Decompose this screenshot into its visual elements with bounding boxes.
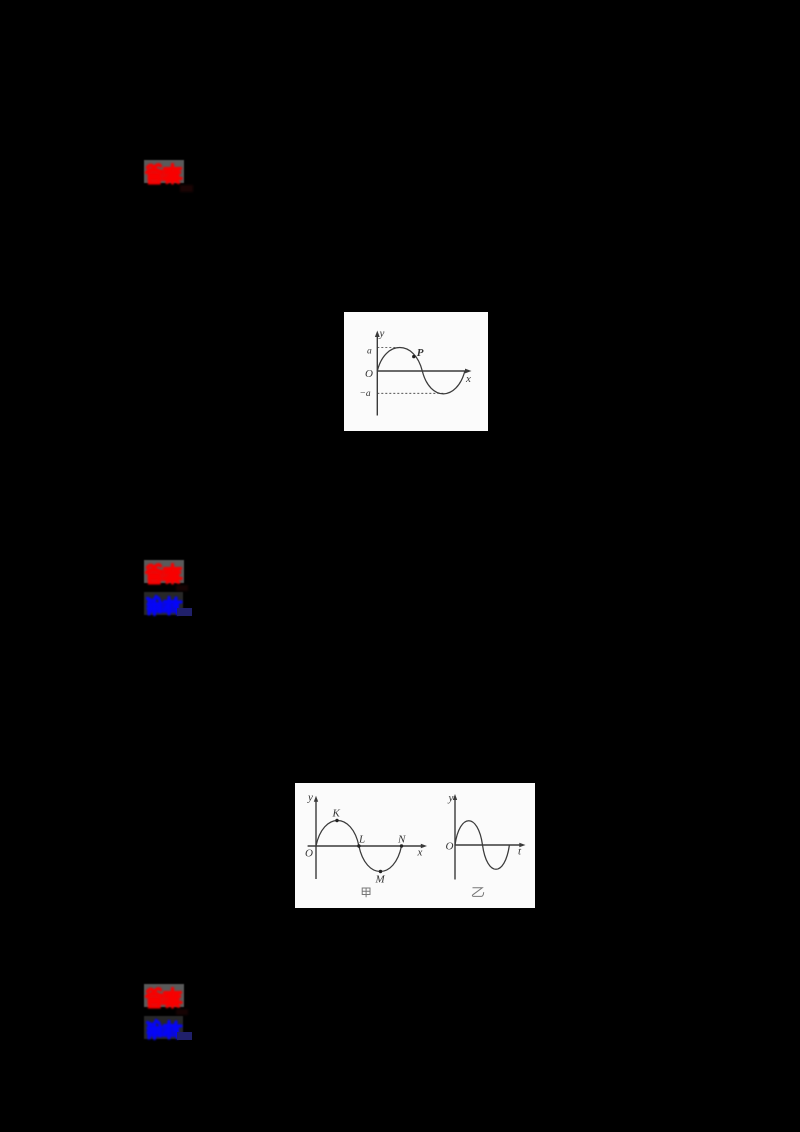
glyph 甲	[362, 888, 370, 897]
svg-text:y: y	[379, 328, 385, 340]
navy highlight box 2	[177, 608, 192, 616]
svg-text:y: y	[307, 792, 313, 804]
figure 2: two sine graphs 甲 and 乙	[295, 783, 535, 908]
svg-text:L: L	[358, 834, 365, 846]
left graph x axis	[308, 845, 424, 847]
answer label 3 (red 答案 on gray box)	[144, 984, 184, 1007]
svg-text:N: N	[397, 834, 406, 846]
right x arrowhead	[519, 843, 525, 848]
left x arrowhead	[421, 844, 427, 849]
y axis arrowhead	[375, 331, 380, 338]
right graph x axis	[455, 844, 522, 846]
svg-text:t: t	[518, 846, 522, 858]
svg-text:O: O	[365, 368, 373, 380]
sine curve	[377, 348, 465, 394]
right y arrowhead	[453, 794, 457, 800]
point N dot	[400, 844, 403, 847]
answer label 1 (red 答案 on gray box)	[144, 160, 184, 183]
dashed line to peak (a)	[377, 347, 400, 349]
figure 1: sine wave y(x) with point P	[344, 312, 488, 431]
point P dot	[412, 355, 415, 358]
analysis label 2 (blue 解析 on dark box)	[144, 592, 183, 615]
point K dot	[335, 819, 338, 822]
analysis label 3 (blue 解析 on dark box)	[144, 1016, 183, 1039]
left y arrowhead	[314, 796, 318, 802]
navy highlight box 3	[177, 1032, 192, 1040]
dashed line to trough (-a)	[377, 392, 444, 394]
svg-text:P: P	[417, 347, 424, 359]
right graph y axis	[454, 799, 456, 880]
svg-text:x: x	[417, 847, 423, 859]
x axis	[377, 370, 468, 372]
faint red smudge under answer label 1	[180, 185, 193, 192]
left sine curve K L M N	[316, 821, 402, 872]
svg-text:M: M	[375, 874, 386, 886]
answer label 2 (red 答案 on gray box)	[144, 560, 184, 583]
point L dot	[357, 844, 360, 847]
svg-text:a: a	[367, 347, 372, 357]
right sine curve	[455, 821, 509, 870]
faint red smudge under answer label 3	[176, 1009, 188, 1015]
y axis	[376, 335, 378, 416]
faint red smudge under answer label 2	[176, 585, 188, 591]
svg-text:K: K	[332, 808, 341, 820]
svg-text:O: O	[305, 848, 313, 860]
svg-text:y: y	[448, 792, 454, 804]
glyph 乙	[472, 888, 483, 897]
svg-text:x: x	[465, 373, 471, 385]
point M dot	[379, 870, 382, 873]
svg-text:O: O	[446, 841, 454, 853]
x axis arrowhead	[465, 369, 472, 374]
left graph y axis	[315, 800, 317, 879]
svg-text:−a: −a	[360, 389, 371, 399]
